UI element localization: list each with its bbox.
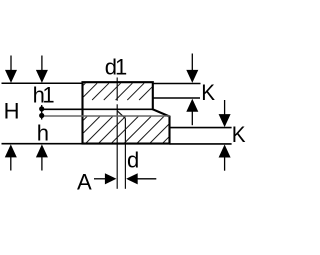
- svg-text:K: K: [201, 80, 215, 105]
- svg-text:h1: h1: [33, 83, 55, 108]
- centerline axis d1: [116, 78, 118, 101]
- svg-text:d1: d1: [105, 55, 127, 80]
- axis offset jog: [117, 111, 125, 119]
- h1/h dimension dots: [41, 105, 43, 120]
- K1 up arrow: [186, 99, 198, 126]
- inner shoulder line: [42, 108, 153, 110]
- h1 dimension down arrow: [36, 56, 48, 83]
- svg-text:d: d: [127, 148, 139, 173]
- K2 down arrow: [219, 100, 231, 127]
- h dimension up arrow: [36, 144, 48, 170]
- body outline: [83, 82, 170, 143]
- H dimension up arrow: [5, 144, 17, 170]
- bottom reference line left: [2, 143, 83, 145]
- centerline axis d: [124, 118, 126, 188]
- hatch lower section: [83, 116, 168, 143]
- A dimension arrow (points right): [94, 173, 116, 184]
- K2 up arrow: [219, 145, 231, 171]
- H dimension down arrow: [5, 56, 17, 83]
- hatch upper section: [83, 83, 152, 100]
- bottom reference line right: [170, 143, 232, 145]
- top reference line left: [2, 82, 83, 84]
- d dimension arrow (points left): [126, 173, 156, 184]
- svg-text:H: H: [4, 99, 20, 124]
- svg-text:A: A: [77, 170, 92, 195]
- top reference line right: [153, 83, 201, 85]
- socket depth line upper: [153, 97, 200, 99]
- K1 down arrow: [186, 54, 198, 83]
- inner gray line: [42, 115, 170, 117]
- svg-text:h: h: [37, 121, 49, 146]
- socket depth line lower: [170, 127, 232, 129]
- svg-text:K: K: [232, 122, 246, 147]
